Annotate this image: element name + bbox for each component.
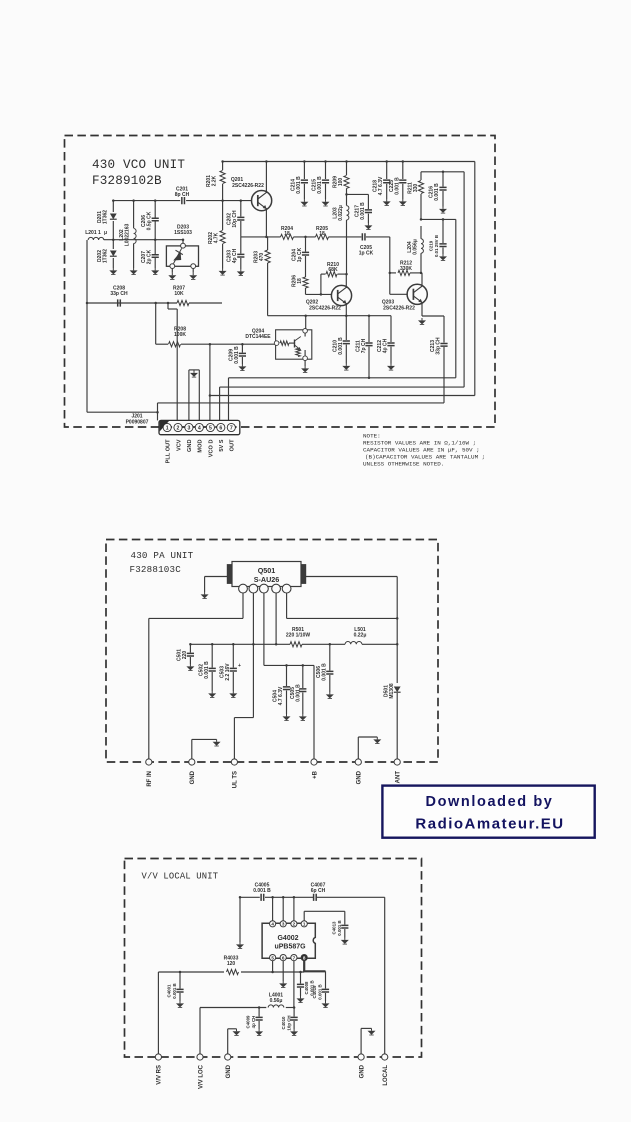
- svg-text:8: 8: [303, 956, 306, 961]
- svg-text:R20618: R20618: [291, 275, 303, 287]
- wire B rail: [264, 664, 314, 666]
- svg-text:C5060.001 B: C5060.001 B: [316, 663, 328, 681]
- svg-text:L201 1: L201 1: [85, 230, 101, 236]
- wire R4033 rail: [158, 971, 224, 973]
- wire pin1 C4013: [303, 911, 305, 920]
- capacitor C504: [286, 665, 288, 686]
- svg-text:C2100.001 B: C2100.001 B: [332, 337, 344, 355]
- svg-text:C5020.001 B: C5020.001 B: [198, 661, 210, 679]
- capacitor C212: [390, 316, 392, 342]
- ground: [293, 1029, 295, 1031]
- wire PA gnd right: [357, 737, 359, 759]
- resistor R210: [321, 273, 326, 275]
- svg-text:C2250.001 B: C2250.001 B: [389, 177, 401, 195]
- ground: [390, 364, 392, 366]
- terminal UL TS: [231, 759, 237, 765]
- wire Q202 emitter: [345, 303, 347, 316]
- svg-text:DTC144EE: DTC144EE: [245, 334, 271, 340]
- inductor L202: [133, 201, 135, 228]
- svg-text:1p CK: 1p CK: [359, 250, 374, 256]
- capacitor C4013: [344, 911, 346, 924]
- svg-text:2SC4226-R22: 2SC4226-R22: [232, 183, 264, 189]
- capacitor C4001: [179, 972, 181, 989]
- wire C4005 left gnd: [239, 897, 241, 942]
- VCO unit dashed border: [65, 136, 496, 428]
- diode D501: [394, 686, 401, 692]
- capacitor C211: [368, 316, 370, 342]
- svg-text:C2160.001 B: C2160.001 B: [428, 183, 440, 201]
- resistor R211: [420, 172, 422, 180]
- svg-text:VCO D: VCO D: [209, 440, 215, 458]
- capacitor C209: [241, 344, 243, 352]
- connector pin 7: [227, 423, 235, 431]
- terminal V/V RS: [155, 1054, 161, 1060]
- capacitor C505: [302, 665, 304, 688]
- terminal V/V LOC: [197, 1054, 203, 1060]
- wire local gnd right: [360, 1028, 362, 1054]
- wire pin5 stub: [272, 961, 274, 972]
- ground: [300, 996, 302, 998]
- svg-text:R209100: R209100: [332, 176, 344, 188]
- capacitor C4010: [293, 1008, 295, 1017]
- ground: [258, 1029, 260, 1031]
- wire pin3 pin4 gnd: [188, 370, 190, 421]
- svg-text:L2040.056μ: L2040.056μ: [407, 239, 419, 255]
- svg-text:D2021T362: D2021T362: [97, 249, 109, 263]
- connector pin 6: [217, 423, 225, 431]
- PA module Q501: [232, 562, 301, 587]
- wire VV LOC path: [199, 1008, 201, 1054]
- ground: [386, 199, 388, 201]
- svg-text:μ: μ: [104, 230, 107, 236]
- capacitor C213: [443, 316, 445, 343]
- svg-text:C2072p CK: C2072p CK: [141, 249, 153, 264]
- svg-text:2: 2: [177, 426, 180, 432]
- resistor R501: [290, 642, 302, 647]
- svg-text:C5044.7 6.3V: C5044.7 6.3V: [272, 686, 284, 705]
- Local unit dashed border: [125, 859, 422, 1058]
- svg-text:5V S: 5V S: [219, 439, 225, 451]
- svg-text:C2060.5p CK: C2060.5p CK: [141, 211, 153, 230]
- svg-text:GND: GND: [357, 770, 363, 784]
- inductor L501: [345, 642, 362, 645]
- svg-text:D2011T362: D2011T362: [97, 210, 109, 224]
- Q501 pin 3: [260, 584, 269, 593]
- wire pin3 column: [263, 593, 265, 666]
- svg-text:0.22μ: 0.22μ: [354, 632, 367, 638]
- diode D202: [112, 240, 114, 249]
- inductor L4001: [268, 1005, 284, 1008]
- svg-text:LOCAL: LOCAL: [383, 1065, 389, 1086]
- IC U4002 box: [262, 923, 315, 958]
- capacitor C219: [442, 219, 444, 243]
- resistor R203: [267, 237, 269, 250]
- svg-text:ANT: ANT: [396, 771, 402, 784]
- wire UL TS path: [234, 717, 253, 719]
- resistor R212: [390, 272, 396, 274]
- wire bus out: [229, 377, 456, 379]
- wire VCV pin2: [176, 309, 178, 420]
- svg-text:GND: GND: [190, 770, 196, 784]
- capacitor C214: [303, 162, 305, 180]
- capacitor C217: [367, 194, 369, 209]
- svg-text:6: 6: [282, 956, 285, 961]
- ground: [211, 691, 213, 693]
- wire bottom left: [87, 411, 158, 413]
- wire Q501 right out: [306, 576, 397, 578]
- IC pin 2: [291, 921, 297, 927]
- svg-text:NOTE:: NOTE:: [363, 433, 381, 440]
- svg-text:V/V RS: V/V RS: [157, 1065, 163, 1085]
- capacitor C205: [362, 233, 365, 240]
- svg-text:68K: 68K: [328, 267, 338, 273]
- ground: [232, 691, 234, 693]
- capacitor C502: [211, 644, 213, 667]
- wire pin5 path: [286, 593, 288, 619]
- ground: [240, 269, 242, 271]
- wire Q203 emitter: [421, 302, 423, 316]
- wire bus 5V: [210, 395, 475, 397]
- svg-text:2SC4226-R22: 2SC4226-R22: [309, 306, 341, 312]
- wire VCV rail: [87, 302, 177, 304]
- capacitor C503: [232, 644, 234, 667]
- connector pin 1: [163, 423, 171, 431]
- inductor L204: [421, 239, 423, 253]
- ground: [303, 199, 305, 201]
- wire pin stubs top: [272, 897, 274, 920]
- svg-text:120: 120: [227, 961, 236, 967]
- terminal GND: [225, 1054, 231, 1060]
- wire tank node: [104, 239, 184, 241]
- svg-text:C40130.001 B: C40130.001 B: [331, 920, 342, 935]
- Q501 pin 4: [272, 584, 281, 593]
- resistor R201: [222, 162, 224, 171]
- ground: [241, 364, 243, 366]
- svg-text:uPB587G: uPB587G: [274, 944, 306, 951]
- svg-text:GND: GND: [359, 1064, 365, 1078]
- terminal GND: [355, 759, 361, 765]
- ground: [179, 1001, 181, 1003]
- svg-text:(B)CAPACITOR VALUES ARE TANTAL: (B)CAPACITOR VALUES ARE TANTALUM ;: [365, 454, 485, 461]
- svg-text:+B: +B: [312, 770, 318, 779]
- resistor R206: [303, 277, 308, 288]
- svg-text:R203470: R203470: [253, 251, 265, 263]
- svg-text:C2150.001 B: C2150.001 B: [311, 176, 323, 194]
- svg-text:3: 3: [187, 426, 190, 432]
- IC pin 6: [280, 955, 286, 961]
- wire PA gnd left: [191, 739, 193, 759]
- wire Q204 emitter ground: [304, 361, 306, 367]
- wire bus 2: [220, 386, 465, 388]
- svg-text:C2170.001 B: C2170.001 B: [354, 202, 366, 220]
- capacitor C207: [154, 240, 156, 254]
- terminal ANT: [394, 759, 400, 765]
- ground: [286, 714, 288, 716]
- svg-text:RESISTOR VALUES ARE IN Ω,1/16: RESISTOR VALUES ARE IN Ω,1/16W ;: [363, 440, 476, 447]
- svg-text:R2024.7K: R2024.7K: [208, 232, 220, 244]
- svg-text:100K: 100K: [174, 332, 186, 338]
- svg-text:7: 7: [230, 426, 233, 432]
- svg-text:C40010.001 B: C40010.001 B: [166, 983, 177, 998]
- digital transistor Q204: [276, 330, 312, 359]
- svg-text:P0090807: P0090807: [126, 419, 149, 425]
- ground: [133, 268, 135, 270]
- ground: [154, 268, 156, 270]
- svg-text:5: 5: [209, 426, 212, 432]
- svg-text:VCV: VCV: [176, 439, 182, 451]
- ground: [442, 207, 444, 209]
- wire pin8 thick: [303, 961, 305, 972]
- terminal GND: [358, 1054, 364, 1060]
- svg-text:GND: GND: [187, 440, 193, 452]
- svg-text:1: 1: [303, 922, 306, 927]
- Q501 pin 1: [239, 584, 248, 593]
- IC pin 3: [280, 921, 286, 927]
- wire L204 node: [421, 218, 456, 220]
- capacitor C202: [240, 201, 242, 217]
- Q501 pin 5: [282, 584, 291, 593]
- svg-text:1SS103: 1SS103: [174, 230, 192, 236]
- wire emitter rail: [268, 315, 391, 317]
- svg-text:C21333p CH: C21333p CH: [430, 337, 442, 355]
- wire mid rail: [241, 236, 281, 238]
- svg-text:3: 3: [282, 922, 285, 927]
- ground: [344, 938, 346, 940]
- varactor D203 box: [166, 246, 198, 266]
- svg-text:C401010p CH: C401010p CH: [281, 1015, 292, 1030]
- svg-text:2: 2: [293, 922, 296, 927]
- wire Q201 collector: [265, 162, 267, 194]
- svg-text:PLL OUT: PLL OUT: [166, 439, 172, 463]
- svg-text:18: 18: [284, 231, 290, 237]
- ground: [421, 318, 423, 320]
- wire top rail local: [240, 896, 260, 898]
- wire L203 C217 link: [347, 193, 369, 195]
- svg-text:4: 4: [271, 922, 274, 927]
- svg-text:V/V LOCAL UNIT: V/V LOCAL UNIT: [142, 872, 219, 882]
- svg-text:G4002: G4002: [277, 935, 298, 942]
- svg-text:MOD: MOD: [198, 440, 204, 453]
- connector pin 3: [185, 423, 193, 431]
- inductor L203: [346, 194, 348, 205]
- svg-text:C2117p CH: C2117p CH: [355, 338, 367, 353]
- svg-text:C2124p CH: C2124p CH: [377, 338, 389, 353]
- ground: [189, 664, 191, 666]
- wire VV RS column: [157, 972, 159, 1054]
- ground: [192, 273, 194, 275]
- wire left column: [86, 240, 88, 412]
- svg-text:C20210p CH: C20210p CH: [226, 210, 238, 228]
- IC pin 7: [291, 955, 297, 961]
- capacitor C4019: [325, 971, 327, 988]
- connector pin 5: [206, 423, 214, 431]
- Q501 pin 2: [249, 584, 258, 593]
- IC pin 4: [270, 921, 276, 927]
- svg-text:Downloaded by: Downloaded by: [426, 794, 554, 810]
- wire RF IN path: [242, 593, 244, 618]
- svg-text:C2090.001 B: C2090.001 B: [228, 346, 240, 364]
- resistor R4033: [227, 969, 239, 974]
- capacitor C201: [182, 197, 185, 204]
- resistor R202: [222, 201, 224, 230]
- transistor Q201: [252, 191, 272, 211]
- wire top right: [421, 171, 464, 173]
- terminal LOCAL: [382, 1054, 388, 1060]
- svg-text:RF IN: RF IN: [147, 771, 153, 787]
- svg-text:5: 5: [271, 956, 274, 961]
- transistor Q202: [331, 285, 351, 305]
- resistor R204: [281, 234, 294, 239]
- svg-text:R2012.2K: R2012.2K: [206, 175, 218, 187]
- svg-text:L202L0022163: L202L0022163: [119, 224, 131, 247]
- svg-text:C2140.001 B: C2140.001 B: [290, 176, 302, 194]
- svg-text:8p CH: 8p CH: [175, 192, 190, 198]
- capacitor C203: [240, 237, 242, 254]
- svg-text:+: +: [238, 663, 241, 669]
- svg-text:33p CH: 33p CH: [110, 291, 128, 297]
- svg-text:R211330: R211330: [407, 182, 419, 194]
- ground: [402, 199, 404, 201]
- transistor Q203: [407, 284, 427, 304]
- ground: [325, 199, 327, 201]
- wire Q204 collector: [305, 316, 307, 329]
- wire local gnd left: [227, 1029, 229, 1054]
- wire Q202 collector: [345, 274, 347, 288]
- ground: [329, 692, 331, 694]
- wire bus PLL: [158, 402, 445, 404]
- svg-text:4: 4: [198, 426, 201, 432]
- svg-text:430 VCO UNIT: 430 VCO UNIT: [92, 158, 185, 172]
- IC pin 5: [270, 955, 276, 961]
- wire pin2 column: [252, 593, 254, 718]
- resistor R205: [316, 234, 329, 239]
- capacitor C215: [325, 162, 327, 180]
- connector J201: [159, 420, 240, 434]
- svg-text:RadioAmateur.EU: RadioAmateur.EU: [415, 816, 564, 833]
- svg-text:1: 1: [166, 426, 169, 432]
- capacitor C216: [442, 172, 444, 187]
- capacitor C208: [118, 299, 121, 306]
- svg-text:C2041p CK: C2041p CK: [291, 247, 303, 262]
- svg-text:0.56μ: 0.56μ: [270, 998, 283, 1004]
- svg-text:0.001 B: 0.001 B: [253, 888, 271, 894]
- svg-text:D501M1308: D501M1308: [383, 683, 395, 699]
- wire R208 rail: [155, 303, 157, 344]
- svg-text:C5050.001 B: C5050.001 B: [290, 684, 302, 702]
- svg-text:C2190.01 25V B: C2190.01 25V B: [428, 235, 439, 257]
- wire pin4 column: [275, 593, 277, 645]
- ground: [442, 254, 444, 256]
- capacitor C225: [402, 162, 404, 180]
- svg-text:6: 6: [219, 426, 222, 432]
- svg-text:F3289102B: F3289102B: [92, 174, 162, 188]
- svg-text:V/V LOC: V/V LOC: [198, 1064, 204, 1089]
- wire pin5 column: [209, 344, 211, 420]
- wire pin7 column: [293, 961, 295, 1008]
- resistor R207: [177, 300, 189, 305]
- capacitor C218: [386, 162, 388, 180]
- capacitor C4007: [314, 894, 317, 901]
- svg-text:C2034p CH: C2034p CH: [226, 248, 238, 263]
- terminal RF IN: [146, 759, 152, 765]
- wire Q201 base rail: [113, 200, 180, 202]
- capacitor C501: [189, 644, 191, 652]
- ground: [171, 273, 173, 275]
- svg-text:S-AU26: S-AU26: [254, 575, 280, 584]
- svg-text:430 PA UNIT: 430 PA UNIT: [131, 550, 194, 561]
- wire 5V rail: [223, 161, 475, 163]
- wire Q203 base feed: [389, 237, 391, 294]
- svg-text:18: 18: [319, 231, 325, 237]
- svg-text:C2184.7 6.3V: C2184.7 6.3V: [372, 176, 384, 195]
- connector pin 4: [195, 423, 203, 431]
- capacitor C206: [154, 201, 156, 218]
- capacitor C4005: [261, 894, 264, 901]
- wire Q203 collector: [421, 273, 423, 287]
- RadioAmateur stamp: [382, 786, 594, 838]
- wire pin6 gnd: [282, 961, 284, 981]
- svg-text:C40080.001 B: C40080.001 B: [304, 980, 315, 995]
- capacitor C4008: [300, 972, 302, 984]
- svg-text:Q501: Q501: [258, 566, 276, 575]
- diode D201: [112, 201, 114, 212]
- svg-text:6p CH: 6p CH: [311, 888, 326, 894]
- svg-text:UL TS: UL TS: [233, 771, 239, 788]
- ground: [325, 1001, 327, 1003]
- svg-text:OUT: OUT: [230, 439, 236, 451]
- capacitor C210: [345, 316, 347, 340]
- svg-text:7: 7: [293, 956, 296, 961]
- connector pin 2: [174, 423, 182, 431]
- resistor R208: [169, 342, 181, 347]
- svg-text:C501220: C501220: [176, 649, 188, 661]
- ground: [302, 714, 304, 716]
- inductor L201: [88, 237, 104, 240]
- svg-text:330K: 330K: [400, 266, 412, 272]
- wire Q201 emitter: [265, 208, 267, 237]
- ground: [367, 223, 369, 225]
- svg-text:UNLESS OTHERWISE NOTED.: UNLESS OTHERWISE NOTED.: [363, 461, 444, 468]
- terminal GND: [189, 759, 195, 765]
- svg-text:220 1/10W: 220 1/10W: [286, 632, 310, 638]
- capacitor C4009: [258, 1008, 260, 1017]
- terminal +B: [311, 759, 317, 765]
- svg-text:CAPACITOR VALUES ARE IN μF, 50: CAPACITOR VALUES ARE IN μF, 50V ;: [363, 447, 480, 454]
- ground: [222, 269, 224, 271]
- capacitor C506: [329, 644, 331, 670]
- svg-text:GND: GND: [226, 1064, 232, 1078]
- svg-text:C5032.2 16V: C5032.2 16V: [219, 663, 231, 681]
- resistor R209: [346, 162, 348, 176]
- capacitor C204: [305, 237, 307, 252]
- svg-text:10K: 10K: [174, 291, 184, 297]
- IC pin 8: [301, 955, 307, 961]
- wire LOCAL column: [384, 897, 386, 1054]
- wire PA rail: [190, 643, 290, 645]
- PA unit dashed border: [106, 540, 438, 763]
- svg-text:2SC4226-R22: 2SC4226-R22: [383, 306, 415, 312]
- svg-text:C40094p CH: C40094p CH: [245, 1015, 256, 1028]
- ground: [112, 268, 114, 270]
- wire Q501 left ground: [205, 576, 228, 578]
- svg-text:L2030.022μ: L2030.022μ: [332, 205, 344, 221]
- IC pin 1: [301, 921, 307, 927]
- svg-text:F3288103C: F3288103C: [130, 564, 182, 575]
